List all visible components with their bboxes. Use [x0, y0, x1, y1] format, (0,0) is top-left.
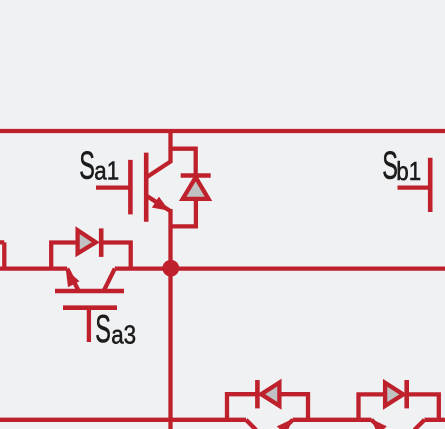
- diode D-Sa3 triangle: [78, 230, 96, 253]
- wire middle vertical to bottom: [168, 268, 172, 429]
- wire Sa1 gate lead: [96, 185, 130, 189]
- transistor bottom-right emitter diagonal: [372, 420, 383, 429]
- wire bottom rail right segment: [425, 418, 445, 422]
- transistor Sa1 emitter diagonal: [146, 196, 170, 212]
- wire Sa1 emitter vertical: [168, 209, 172, 269]
- node junction dot: [162, 260, 179, 277]
- svg-text:a1: a1: [94, 157, 119, 186]
- label Sa3: [95, 307, 136, 351]
- wire bottom rail left segment: [0, 418, 246, 422]
- transistor bottom-left emitter diagonal: [282, 420, 293, 429]
- wire Sa3 gate lead: [87, 308, 91, 342]
- label Sa1: [79, 144, 119, 188]
- svg-text:a3: a3: [111, 321, 136, 350]
- diode D-Sa1 cathode bar: [181, 173, 211, 178]
- diode D-bottom-right triangle: [385, 383, 403, 406]
- wire Sb1 gate lead: [398, 185, 431, 189]
- diode D-Sa3 cathode bar: [99, 228, 104, 257]
- transistor bottom-right emitter arrow: [371, 419, 387, 429]
- wire Sa1 diode bottom jog: [171, 199, 196, 227]
- wire Sa1 diode branch top jog: [171, 149, 196, 175]
- wire left-edge neighbour diode stub: [0, 242, 4, 268]
- wire bottom-right module diode loop: [359, 394, 386, 419]
- wire bottom-left module diode loop right: [279, 394, 308, 420]
- transistor Sb1 gate bar: [428, 158, 433, 212]
- diode D-bottom-right cathode bar: [404, 380, 409, 408]
- label Sb1: [382, 144, 421, 188]
- transistor Sa3 emitter diagonal: [67, 269, 78, 291]
- svg-text:b1: b1: [396, 157, 421, 186]
- wire bottom-left module diode loop: [227, 394, 256, 420]
- wire Sa1 collector drop: [146, 131, 170, 178]
- wire Sa3 diode branch right: [101, 243, 131, 269]
- transistor Sa3 collector diagonal: [104, 269, 115, 291]
- transistor bottom-right collector diagonal: [414, 420, 424, 429]
- wire Sa3 diode branch: [51, 243, 77, 269]
- transistor bottom-left collector diagonal: [246, 420, 256, 429]
- transistor Sa3 gate bar: [63, 305, 117, 310]
- diode D-bottom-left cathode bar: [255, 380, 260, 408]
- wire bottom-right module diode loop right: [407, 394, 439, 419]
- transistor Sa3 emitter arrow: [66, 269, 80, 287]
- transistor Sa1 body bar: [144, 153, 149, 222]
- diode D-bottom-left triangle: [261, 383, 279, 406]
- diode D-Sa1 triangle: [183, 177, 209, 199]
- transistor Sa1 gate bar: [128, 160, 133, 215]
- wire Sa3 emitter horizontal: [0, 266, 67, 270]
- svg-text:S: S: [79, 144, 95, 188]
- wire top DC rail: [0, 129, 445, 133]
- transistor Sa3 body bar: [55, 289, 124, 294]
- wire bottom rail middle segment: [293, 418, 372, 422]
- transistor Sa1 emitter arrow: [152, 197, 169, 211]
- transistor bottom-left emitter arrow: [277, 419, 293, 429]
- svg-text:S: S: [95, 307, 111, 351]
- wire Sa3 to junction and phase output to right edge: [115, 266, 445, 270]
